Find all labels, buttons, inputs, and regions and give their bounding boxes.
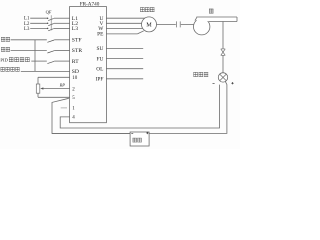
svg-text:PE: PE [97, 32, 104, 38]
pin label L3 [72, 26, 78, 32]
svg-text:IPF: IPF [96, 77, 104, 83]
pin label L2 [72, 21, 78, 27]
power supply G1 box [130, 132, 149, 146]
svg-text:PID: PID [0, 57, 8, 62]
QF contact dot L3 [47, 28, 49, 30]
label QF [46, 10, 52, 15]
wire output FU stub [106, 58, 143, 60]
pin label STR [72, 48, 83, 54]
QF linkage bar [50, 15, 52, 30]
label RP [59, 83, 66, 88]
pump P1 symbol [194, 17, 238, 35]
pin label SD [72, 69, 79, 75]
label 正转 (forward) [1, 37, 10, 41]
wire L2 to QF [30, 22, 47, 24]
wire U to motor [106, 17, 149, 19]
supply label L2 [24, 22, 30, 27]
wire terminal 5 to supply minus [52, 98, 130, 133]
shaft motor to coupling [157, 23, 176, 25]
wire switch to STR [54, 50, 69, 52]
label 泵 (pump) [209, 9, 213, 13]
svg-text:10: 10 [72, 76, 78, 81]
pin label 5 [72, 96, 75, 101]
svg-text:SD: SD [72, 69, 79, 75]
label 反转 (reverse) [1, 47, 10, 51]
pipe valve to sensor [222, 55, 224, 72]
wire output OL stub [106, 68, 143, 70]
switch RT blade [47, 61, 54, 63]
pin label U [99, 16, 103, 22]
wire W to motor [106, 27, 149, 29]
QF blade L3 [48, 29, 54, 31]
wire terminal 4 to sensor minus [60, 85, 219, 128]
QF blade L2 [48, 24, 54, 26]
label FR-A740 [80, 1, 100, 7]
svg-text:FU: FU [96, 56, 103, 62]
wire QF to terminal L1 [54, 17, 70, 19]
svg-text:RT: RT [72, 59, 79, 65]
svg-text:RP: RP [59, 83, 66, 88]
pin label 1 [72, 107, 75, 112]
wire 反转 to bus [11, 50, 47, 52]
wire QF to terminal L3 [54, 27, 70, 29]
wire V to motor [106, 22, 149, 24]
svg-text:FR-A740: FR-A740 [80, 1, 100, 7]
svg-text:OL: OL [96, 66, 103, 72]
pot wiper arrow to terminal 2 [40, 87, 69, 89]
wire L3 to QF [30, 27, 47, 29]
svg-text:L3: L3 [24, 27, 30, 32]
label 传感器 (sensor) [193, 72, 208, 76]
motor M1 circle [142, 17, 157, 32]
svg-text:M: M [146, 22, 152, 29]
pin label FU [96, 56, 103, 62]
supply minus terminal [131, 132, 133, 134]
wire PE to motor frame [106, 31, 143, 34]
wire 正转 to bus [11, 39, 47, 41]
wire output IPF stub [106, 78, 143, 80]
label 电源 (power supply) [133, 138, 142, 142]
pin label V [99, 21, 103, 27]
pin label IPF [96, 77, 104, 83]
label PID控制选择 (PID control select) [0, 57, 29, 62]
coupling bars [176, 21, 180, 27]
sensor B1 circle [218, 73, 227, 82]
supply label L1 [24, 17, 30, 22]
wire pot top to terminal 10 [38, 77, 70, 84]
label 公共端子 (common terminal) [1, 67, 20, 71]
pin label RT [72, 59, 79, 65]
QF blade L1 [48, 18, 54, 20]
svg-text:STR: STR [72, 48, 83, 54]
supply label L3 [24, 27, 30, 32]
wire 公共端子 to SD [21, 70, 70, 72]
svg-text:SU: SU [96, 46, 103, 52]
QF contact dot L1 [47, 17, 49, 19]
wire output SU stub [106, 48, 143, 50]
pin label OL [96, 66, 103, 72]
wire supply minus side [52, 133, 130, 135]
svg-text:L3: L3 [72, 26, 78, 32]
label 电动机 (motor) [140, 7, 154, 11]
sensor plus sign [231, 82, 233, 84]
sensor plus lead to supply plus [149, 81, 227, 133]
wire switch to RT [54, 60, 69, 62]
wire switch to STF [54, 39, 69, 41]
supply plus terminal [146, 132, 148, 134]
common bus wire [34, 40, 36, 72]
shaft coupling to pump [181, 24, 194, 26]
pin label 4 [72, 116, 75, 121]
pin label L1 [72, 16, 78, 22]
pipe pump outlet down [222, 22, 224, 49]
sensor minus sign [213, 82, 215, 84]
stub terminal 1 [61, 107, 67, 109]
switch STR blade [47, 51, 54, 53]
QF contact dot L2 [47, 23, 49, 25]
wire PID to bus [31, 60, 47, 62]
switch STF blade [47, 40, 54, 42]
wire pot bottom to terminal 5 [38, 93, 70, 97]
inverter U1 FR-A740 block outline [70, 7, 107, 123]
svg-text:STF: STF [72, 38, 82, 44]
pin label 2 [72, 87, 75, 92]
wire QF to terminal L2 [54, 22, 70, 24]
pin label 10 [72, 76, 78, 81]
valve V1 [221, 49, 225, 55]
pin label PE [97, 32, 104, 38]
pin label STF [72, 38, 82, 44]
pin label W [98, 26, 104, 32]
svg-text:QF: QF [46, 10, 52, 15]
pin label SU [96, 46, 103, 52]
wire L1 to QF [30, 17, 47, 19]
potentiometer RP body [36, 84, 40, 93]
